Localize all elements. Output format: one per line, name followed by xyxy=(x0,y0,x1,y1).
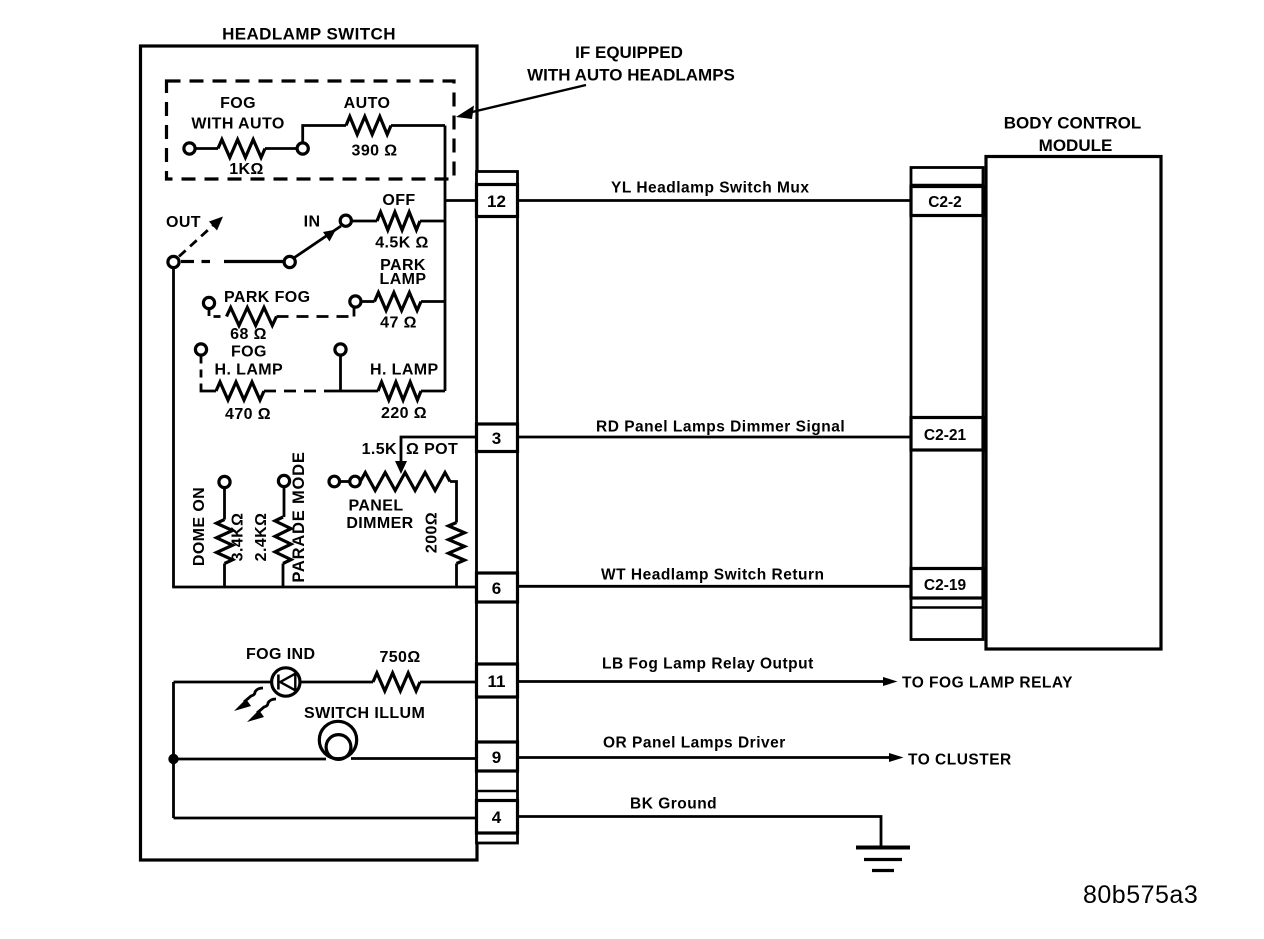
left bus wire xyxy=(172,267,175,587)
connector column (switch side) xyxy=(477,172,518,844)
svg-text:H. LAMP: H. LAMP xyxy=(215,362,284,379)
svg-text:3.4KΩ: 3.4KΩ xyxy=(230,513,247,562)
svg-text:AUTO: AUTO xyxy=(344,95,391,112)
pin C2-21 box xyxy=(911,418,983,451)
terminal fog h-lamp xyxy=(195,344,206,355)
resistor fog h-lamp 470 xyxy=(216,382,264,400)
wire xyxy=(361,300,375,303)
svg-text:1KΩ: 1KΩ xyxy=(229,161,263,178)
auto headlamps dashed box xyxy=(167,81,455,179)
pot terminal left xyxy=(329,476,340,487)
resistor park lamp 47 xyxy=(375,293,422,311)
svg-text:470 Ω: 470 Ω xyxy=(225,406,271,423)
svg-text:H. LAMP: H. LAMP xyxy=(370,362,439,379)
svg-text:9: 9 xyxy=(492,748,501,767)
headlamp switch box xyxy=(141,46,478,860)
wire xyxy=(223,488,226,520)
svg-text:12: 12 xyxy=(487,192,506,211)
svg-text:1.5K: 1.5K xyxy=(362,441,397,458)
svg-text:47 Ω: 47 Ω xyxy=(380,315,417,332)
pin C2-19 box xyxy=(911,569,983,599)
bottom bus wire to pin 6 xyxy=(172,586,477,589)
pot terminal inner xyxy=(350,476,361,487)
svg-text:4: 4 xyxy=(492,808,502,827)
svg-text:80b575a3: 80b575a3 xyxy=(1083,881,1198,909)
wire xyxy=(283,487,286,518)
svg-text:PANEL: PANEL xyxy=(348,498,403,515)
wire xyxy=(300,681,373,684)
dash-dot link wire xyxy=(181,260,194,263)
pin 9 box xyxy=(477,742,518,771)
wire xyxy=(174,758,327,761)
pin 6 box xyxy=(477,573,518,602)
wire from pin 3 to pot wiper xyxy=(401,437,477,462)
pot wiper arrow xyxy=(395,461,407,474)
svg-text:68 Ω: 68 Ω xyxy=(230,326,267,343)
leader arrow to dashed box xyxy=(468,85,586,113)
wire to pin 4 xyxy=(174,817,478,820)
ground symbol xyxy=(856,846,910,850)
wire xyxy=(196,147,219,150)
dashed wire to park lamp terminal xyxy=(277,315,353,318)
svg-text:OR Panel Lamps Driver: OR Panel Lamps Driver xyxy=(603,735,786,752)
wire xyxy=(455,564,458,588)
svg-text:200Ω: 200Ω xyxy=(424,512,441,553)
svg-text:6: 6 xyxy=(492,579,501,598)
wire xyxy=(339,355,342,391)
switch pole OUT terminal xyxy=(168,256,179,267)
svg-text:3: 3 xyxy=(492,429,501,448)
svg-text:Ω POT: Ω POT xyxy=(406,441,458,458)
wire xyxy=(174,681,272,684)
svg-text:OFF: OFF xyxy=(382,192,415,209)
switch throw terminal xyxy=(340,215,351,226)
terminal fog-with-auto left xyxy=(184,143,195,154)
dashed wire xyxy=(264,390,336,393)
wire xyxy=(420,681,477,684)
resistor dome 3.4K xyxy=(217,520,233,564)
terminal h-lamp xyxy=(335,344,346,355)
wire to pin 12 xyxy=(445,199,477,202)
svg-text:220 Ω: 220 Ω xyxy=(381,405,427,422)
svg-text:IF EQUIPPED: IF EQUIPPED xyxy=(575,43,683,62)
wire LB fog lamp relay output xyxy=(518,680,889,683)
svg-text:750Ω: 750Ω xyxy=(379,649,420,666)
LED light arrows xyxy=(244,688,263,702)
svg-text:DOME ON: DOME ON xyxy=(191,487,208,566)
svg-text:FOG: FOG xyxy=(231,344,267,361)
resistor 2.4K xyxy=(275,517,291,564)
potentiometer 1.5K element xyxy=(360,473,450,491)
svg-text:C2-19: C2-19 xyxy=(924,577,967,594)
wire down from fog row xyxy=(172,682,175,818)
svg-text:YL Headlamp Switch Mux: YL Headlamp Switch Mux xyxy=(611,180,809,197)
wire xyxy=(340,480,350,483)
svg-text:WITH AUTO HEADLAMPS: WITH AUTO HEADLAMPS xyxy=(527,66,735,85)
LED diode symbol xyxy=(277,675,280,690)
wire xyxy=(265,147,297,150)
body control module box xyxy=(986,157,1161,650)
terminal dome on xyxy=(219,476,230,487)
switch arm OUT dashed xyxy=(179,225,214,257)
svg-text:SWITCH ILLUM: SWITCH ILLUM xyxy=(304,705,425,722)
resistor AUTO 390 xyxy=(346,117,391,135)
pin 11 box xyxy=(477,664,518,697)
resistor OFF 4.5K xyxy=(377,212,420,230)
svg-text:C2-21: C2-21 xyxy=(924,427,967,444)
resistor h-lamp 220 xyxy=(378,382,421,400)
wire RD panel lamps dimmer signal xyxy=(518,436,912,439)
terminal park lamp xyxy=(350,296,361,307)
svg-text:OUT: OUT xyxy=(166,214,201,231)
pin 3 box xyxy=(477,424,518,452)
svg-text:TO FOG LAMP RELAY: TO FOG LAMP RELAY xyxy=(902,675,1073,692)
svg-text:LB Fog Lamp Relay Output: LB Fog Lamp Relay Output xyxy=(602,656,814,673)
resistor 200 ohm xyxy=(449,523,465,564)
svg-text:C2-2: C2-2 xyxy=(928,194,962,211)
dashed lead xyxy=(209,309,222,317)
wire YL headlamp switch mux xyxy=(518,199,912,202)
switch pole IN terminal xyxy=(284,256,295,267)
switch illumination lamp xyxy=(319,721,356,758)
wire xyxy=(391,124,445,127)
resistor 750 ohm xyxy=(373,673,420,691)
resistor 1K fog with auto xyxy=(218,140,265,158)
svg-text:4.5K Ω: 4.5K Ω xyxy=(375,235,428,252)
terminal park fog xyxy=(203,297,214,308)
svg-text:LAMP: LAMP xyxy=(380,271,427,288)
svg-text:BODY CONTROL: BODY CONTROL xyxy=(1004,114,1142,133)
wire BK ground xyxy=(518,817,882,848)
svg-text:FOG: FOG xyxy=(220,95,256,112)
svg-text:11: 11 xyxy=(488,672,506,691)
dashed lead xyxy=(200,356,203,385)
bus wire vertical xyxy=(444,126,447,392)
terminal parade mode xyxy=(278,475,289,486)
svg-text:HEADLAMP SWITCH: HEADLAMP SWITCH xyxy=(222,25,396,44)
pin C2-2 box xyxy=(911,187,983,216)
junction dot xyxy=(168,754,178,764)
connector column (BCM side) xyxy=(911,168,983,640)
svg-text:MODULE: MODULE xyxy=(1039,136,1113,155)
svg-text:TO CLUSTER: TO CLUSTER xyxy=(908,752,1012,769)
wire xyxy=(352,220,378,223)
svg-text:390 Ω: 390 Ω xyxy=(352,143,398,160)
svg-text:RD Panel Lamps Dimmer Signal: RD Panel Lamps Dimmer Signal xyxy=(596,419,845,436)
svg-text:PARK FOG: PARK FOG xyxy=(224,289,310,306)
pin 12 box xyxy=(477,185,518,217)
resistor park fog 68 xyxy=(227,308,277,326)
pin 4 box xyxy=(477,801,518,834)
fog indicator LED circle xyxy=(272,668,300,696)
svg-text:PARADE MODE: PARADE MODE xyxy=(290,451,308,582)
svg-text:DIMMER: DIMMER xyxy=(346,515,413,532)
wire OR panel lamps driver xyxy=(518,756,895,759)
wire WT headlamp switch return xyxy=(518,585,912,588)
svg-text:WITH AUTO: WITH AUTO xyxy=(191,116,284,133)
switch arm IN xyxy=(295,226,342,258)
svg-text:BK Ground: BK Ground xyxy=(630,796,717,813)
wire xyxy=(450,482,457,523)
wire xyxy=(303,126,346,144)
svg-text:IN: IN xyxy=(304,214,321,231)
svg-text:WT Headlamp Switch Return: WT Headlamp Switch Return xyxy=(601,567,825,584)
svg-text:FOG IND: FOG IND xyxy=(246,646,315,663)
terminal fog-with-auto right xyxy=(297,143,308,154)
svg-text:2.4KΩ: 2.4KΩ xyxy=(253,513,270,562)
